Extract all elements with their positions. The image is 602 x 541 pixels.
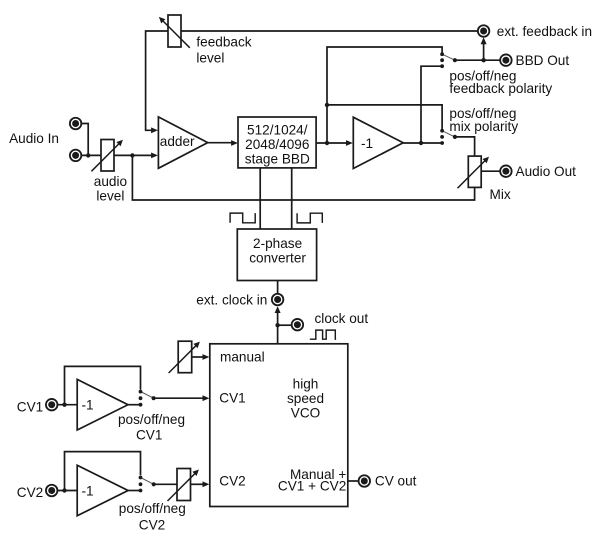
jack CV2 [46,485,58,497]
svg-text:CV1 + CV2: CV1 + CV2 [278,479,346,494]
op-amp adder [158,117,207,168]
wire CV2 bypass loop [65,452,141,491]
junction audio level out [130,153,134,157]
svg-text:CV2: CV2 [219,474,245,489]
junction clock out [275,323,279,327]
switch feedback polarity [440,52,457,68]
pot CV2 level [168,469,199,502]
jack Audio In 2 [70,150,82,162]
junction BBD out tap [325,141,329,145]
svg-text:stage BBD: stage BBD [245,152,310,167]
wire inverter output [403,142,442,144]
jack Audio In 1 [70,118,82,130]
box 2-phase converter [237,229,316,281]
wire dry path [132,155,474,200]
svg-text:adder: adder [160,134,195,149]
svg-text:VCO: VCO [291,406,320,421]
svg-text:2-phase: 2-phase [253,236,302,251]
wire CV2 amp output [128,490,141,492]
svg-text:CV1: CV1 [17,399,43,414]
jack Audio Out [500,165,512,177]
jack CV1 [46,399,58,411]
wire audio jack1 link [82,124,88,156]
arrowhead into inverter [346,140,353,146]
svg-text:-1: -1 [82,398,94,413]
pot Mix [458,156,490,188]
wire CV out [348,480,358,482]
pot audio level [91,140,123,172]
box BBD [238,117,316,168]
wire converter to ext clock jack [277,281,279,294]
box high speed VCO [210,344,348,507]
junction mix feed [325,103,329,107]
arrowhead into adder upper [151,127,158,133]
wire CV1 bypass loop [65,366,141,404]
junction CV1 in [62,403,66,407]
svg-text:pos/off/neg: pos/off/neg [118,412,185,427]
svg-text:2048/4096: 2048/4096 [245,137,309,152]
wire adder output to BBD [207,142,233,144]
switch CV1 polarity [139,390,156,407]
wire BBD tap vertical [327,47,442,143]
pot feedback level [159,15,190,48]
svg-text:Audio In: Audio In [9,131,59,146]
clock waveform glyph clock out [310,330,336,339]
wire CV1 pole to VCO [154,397,204,399]
svg-text:level: level [196,50,224,65]
svg-text:CV2: CV2 [17,485,43,500]
clock waveform glyph phase2 [297,213,322,223]
arrowhead into BBD [231,140,238,146]
wire feedback pole to jacks [455,59,500,61]
wire CV2 pot to VCO [191,483,204,485]
wire BBD clock phase 2 [291,168,293,229]
svg-text:feedback: feedback [196,34,251,49]
junction audio in [86,153,90,157]
svg-text:BBD Out: BBD Out [516,53,570,68]
op-amp inverter -1 [353,117,403,168]
wire mix pole to pot [455,137,475,156]
arrowhead CV2 input [203,481,210,487]
wire CV1 input [58,404,77,406]
jack BBD Out [500,54,512,65]
svg-text:-1: -1 [361,136,373,151]
wire CV1 amp output [128,404,141,406]
jack clock out [292,319,304,331]
svg-text:ext. feedback in: ext. feedback in [497,24,592,39]
arrowhead into adder lower [151,153,158,159]
op-amp CV1 inverter -1 [77,379,128,430]
clock waveform glyph phase1 [230,213,255,223]
pot manual [169,341,200,373]
svg-text:high: high [293,377,319,392]
svg-text:pos/off/neg: pos/off/neg [119,501,186,516]
svg-text:Audio Out: Audio Out [516,164,577,179]
jack CV out [359,475,371,487]
switch CV2 polarity [139,476,156,493]
wire manual pot to VCO [192,356,204,358]
op-amp CV2 inverter -1 [77,465,128,516]
arrowhead manual input [203,354,210,360]
wire clock out branch [278,324,292,326]
svg-text:clock out: clock out [315,311,369,326]
svg-text:CV1: CV1 [219,391,245,406]
svg-text:speed: speed [287,391,324,406]
junction inverter out [419,141,423,145]
arrowhead CV1 input [203,395,210,401]
svg-text:converter: converter [249,250,306,265]
svg-text:CV1: CV1 [136,428,162,443]
svg-text:level: level [96,189,124,204]
junction ext feedback [481,58,485,62]
wire BBD output to inverter [316,142,347,144]
jack ext feedback in [478,25,490,37]
wire VCO clock to jack [277,311,279,344]
svg-text:mix polarity: mix polarity [449,119,518,134]
wire CV2 pole to pot [154,483,177,485]
junction CV2 in [62,488,66,492]
wire mix pos feed [327,105,442,131]
jack ext clock in [272,294,284,306]
svg-text:audio: audio [94,174,127,189]
svg-text:-1: -1 [82,484,94,499]
wire BBD clock phase 1 [259,168,261,229]
svg-text:feedback polarity: feedback polarity [449,81,552,96]
svg-text:manual: manual [220,350,265,365]
wire audio input line [82,154,152,156]
wire arrow to ext feedback jack [483,42,485,60]
svg-text:CV out: CV out [375,474,417,489]
switch mix polarity [440,129,457,145]
svg-text:512/1024/: 512/1024/ [247,123,308,138]
wire CV2 input [58,490,77,492]
wire neg feedback branch [421,66,442,143]
wire feedback top line to adder [146,31,478,130]
svg-text:ext. clock in: ext. clock in [196,292,267,307]
wire mix wiper to audio out [481,170,500,172]
svg-text:CV2: CV2 [139,517,165,532]
svg-text:Mix: Mix [490,187,511,202]
